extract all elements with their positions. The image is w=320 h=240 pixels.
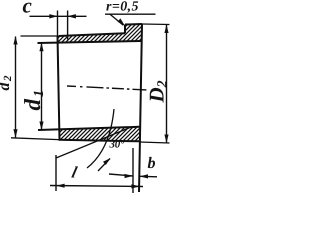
svg-text:l: l [70,165,79,182]
svg-text:b: b [148,155,156,172]
svg-text:D2: D2 [145,80,171,103]
svg-text:c: c [23,0,33,18]
svg-text:30°: 30° [109,139,125,151]
svg-text:d2: d2 [0,74,14,91]
svg-text:r=0,5: r=0,5 [106,0,139,15]
svg-text:d1: d1 [20,88,47,111]
